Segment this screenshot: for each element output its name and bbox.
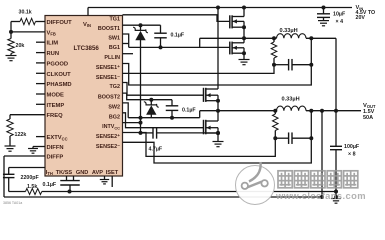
wire VIN pin up to rail <box>87 8 89 16</box>
resistor R sense1 DCR <box>273 38 275 42</box>
wire Q2 drain to SW1 <box>243 38 245 43</box>
svg-text:DIFFOUT: DIFFOUT <box>47 20 73 26</box>
node INTVCC bus 4.7uF tap <box>139 131 143 135</box>
node SW2 <box>216 109 220 113</box>
wire 2200pF to gnd rail <box>8 178 10 192</box>
svg-text:DIFFP: DIFFP <box>47 155 64 161</box>
wire SENSE2+ staircase <box>123 133 276 157</box>
wire VOUT bus vertical <box>335 38 337 146</box>
wire VFB node to VFB pin <box>11 31 45 33</box>
node L1 output sense tap <box>309 36 313 40</box>
wire BG1 stub tee <box>123 43 129 45</box>
capacitor C sense2 DCR <box>275 137 288 139</box>
svg-text:× 4: × 4 <box>336 19 344 25</box>
node boost1 cap bottom <box>159 45 163 49</box>
svg-text:AVP: AVP <box>92 170 103 176</box>
resistor R 122k freq set <box>7 119 13 136</box>
svg-text:BG1: BG1 <box>109 45 120 51</box>
wire sense2 cap to L2 out <box>310 111 312 139</box>
wire SENSE1+ stub jog <box>123 64 312 86</box>
resistor R 1.5k comp <box>26 189 42 195</box>
svg-text:TG1: TG1 <box>110 16 120 22</box>
svg-text:ILIM: ILIM <box>47 41 59 47</box>
resistor R 20k feedback bottom <box>8 39 14 54</box>
wire TKSS stub down <box>66 176 68 181</box>
node sense2 cap right <box>309 136 313 140</box>
wire L1 to VOUT corner <box>306 37 336 39</box>
node VIN rail input cap <box>322 6 326 10</box>
wire SW1 to inductor <box>244 37 277 39</box>
svg-text:50A: 50A <box>363 115 373 121</box>
wire EXTVCC stub <box>36 136 45 138</box>
svg-text:LTC3856: LTC3856 <box>74 45 100 52</box>
svg-text:PGOOD: PGOOD <box>47 61 69 67</box>
resistor R 30.1k feedback top <box>20 18 36 24</box>
node VFB junction <box>9 30 13 34</box>
transistor Q1 top NMOS phase1 <box>229 15 231 28</box>
wire Q1 drain to VIN rail <box>243 8 245 17</box>
wire Q4 source to ground <box>217 133 219 141</box>
ground GND pin <box>100 179 109 181</box>
svg-text:20k: 20k <box>16 43 25 49</box>
wire PGOOD stub <box>36 62 45 64</box>
capacitor C 2200pF comp <box>3 173 15 175</box>
ground below 122k <box>9 136 11 146</box>
node VIN rail phase2 feed <box>216 6 220 10</box>
node VIN rail Q1 drain <box>242 6 246 10</box>
node SW1 sense resistor tap <box>272 36 276 40</box>
svg-text:4.7µF: 4.7µF <box>149 147 163 153</box>
diode D2 boost schottky <box>150 100 152 105</box>
wire RUN stub <box>36 52 45 54</box>
svg-text:1.5k: 1.5k <box>27 184 37 190</box>
capacitor C 10uF input <box>323 8 325 14</box>
svg-text:ISET: ISET <box>106 170 119 176</box>
wire 30.1k left to VFB node <box>11 21 20 23</box>
node DIFFP rail join <box>320 195 324 199</box>
node sense1 cap right <box>309 63 313 67</box>
wire DIFFN to ground <box>33 146 45 148</box>
wire SENSE1- run <box>123 65 275 74</box>
node VOUT bus junction <box>334 109 338 113</box>
wire CLKOUT stub <box>36 72 45 74</box>
svg-text:0.1µF: 0.1µF <box>43 182 57 188</box>
diode D1 boost schottky <box>140 25 142 30</box>
node SW2 sense resistor tap <box>273 109 277 113</box>
svg-text:FREQ: FREQ <box>47 113 64 119</box>
wire L2 to VOUT <box>306 110 361 112</box>
svg-text:VFB: VFB <box>47 30 56 36</box>
svg-text:CLKOUT: CLKOUT <box>47 72 72 78</box>
wire sense1 cap to L1 out <box>310 38 312 64</box>
node sense1 RC junction <box>272 63 276 67</box>
wire BG2 to bottom gate <box>123 113 204 128</box>
transistor Q4 bottom NMOS phase2 <box>203 120 205 135</box>
wire SW1 riser <box>199 38 201 47</box>
wire SW1 lower run to bottom gate <box>129 46 230 48</box>
wire TG1 to top gate <box>123 15 230 22</box>
svg-text:SENSE2⁻: SENSE2⁻ <box>96 144 120 150</box>
svg-text:ITH: ITH <box>46 170 53 176</box>
wire SW2 node line <box>200 110 218 112</box>
wire INTVCC pin to bus <box>123 122 141 124</box>
svg-text:RUN: RUN <box>47 51 60 57</box>
ground DIFFN <box>28 148 38 150</box>
wire Q3 drain lead <box>217 8 219 90</box>
svg-text:2200pF: 2200pF <box>21 175 40 181</box>
node SW1 <box>242 36 246 40</box>
svg-text:PLLIN: PLLIN <box>104 55 120 61</box>
svg-text:TK/SS: TK/SS <box>56 170 73 176</box>
transistor Q2 bottom NMOS phase1 <box>229 42 231 55</box>
node 0.1uF rail junction <box>68 190 72 194</box>
svg-text:122k: 122k <box>15 132 27 138</box>
node L2 output sense tap <box>309 109 313 113</box>
svg-text:MODE: MODE <box>47 93 65 99</box>
IC U1 LTC3856 controller body <box>45 16 123 177</box>
wire FREQ to 122k <box>10 114 45 116</box>
wire SW1 jog down <box>123 34 129 47</box>
inductor L2 0.33uH <box>277 106 307 111</box>
wire SENSE2- staircase <box>123 138 312 163</box>
node 4.7uF gnd tie <box>216 131 220 135</box>
svg-text:PHASMD: PHASMD <box>47 82 72 88</box>
wire DIFFP tap riser <box>321 111 323 197</box>
svg-text:INTVCC: INTVCC <box>102 124 120 130</box>
inductor L1 0.33uH <box>277 34 307 39</box>
wire MODE stub <box>36 93 45 95</box>
resistor R sense2 DCR <box>274 111 276 114</box>
wire 0.1uF to rail <box>69 185 71 192</box>
node boost2 cap bottom <box>170 116 174 120</box>
wire ITH pin left <box>9 167 45 169</box>
wire gnd-sense rail left segment <box>9 191 26 193</box>
wire GND pin stub <box>104 176 106 180</box>
wire BOOST2 line <box>123 93 173 100</box>
wire VOUT-sense rail <box>4 196 322 198</box>
capacitor C sense1 DCR <box>274 64 289 66</box>
svg-text:0.1µF: 0.1µF <box>182 108 196 114</box>
wire SW2 jog down <box>123 103 129 118</box>
wire ITEMP stub <box>36 103 45 105</box>
ground Q4 source <box>213 141 224 143</box>
svg-text:DIFFN: DIFFN <box>47 145 64 151</box>
svg-text:BOOST2: BOOST2 <box>98 95 120 101</box>
svg-text:VIN: VIN <box>83 22 91 28</box>
wire TG2 to gate <box>123 83 204 96</box>
wire 100uF to gnd rails <box>335 150 337 199</box>
svg-text:× 8: × 8 <box>348 152 356 158</box>
ground below 20k <box>10 54 12 56</box>
wire Q3 source to SW2 <box>217 101 219 111</box>
svg-text:SW2: SW2 <box>108 104 120 110</box>
svg-text:SW1: SW1 <box>108 36 120 42</box>
svg-text:0.1µF: 0.1µF <box>171 33 185 39</box>
node gnd rail VOUT cap <box>334 190 338 194</box>
node sense2 RC junction <box>273 136 277 140</box>
wire DIFFP remote sense left <box>4 155 45 157</box>
wire gnd-sense rail <box>42 191 336 193</box>
svg-text:GND: GND <box>76 170 88 176</box>
wire Q4 drain to SW2 <box>217 111 219 121</box>
wire INTVCC bus vertical <box>140 41 142 133</box>
node VOUT diffp tap <box>320 109 324 113</box>
svg-text:SENSE1⁺: SENSE1⁺ <box>96 65 120 71</box>
ground output <box>331 198 341 200</box>
capacitor C 0.1uF soft-start <box>60 180 80 182</box>
capacitor C 0.1uF boost2 <box>171 100 173 106</box>
wire SW1 node line <box>200 37 244 39</box>
capacitor C 0.1uF boost1 <box>160 25 162 33</box>
ground Q2 source <box>239 59 250 61</box>
wire ILIM stub <box>36 41 45 43</box>
ground input cap <box>318 20 329 22</box>
wire BOOST1 line <box>123 24 161 26</box>
wire SW2 lower run <box>128 117 200 119</box>
svg-text:0.33µH: 0.33µH <box>282 96 300 102</box>
svg-text:EXTVCC: EXTVCC <box>47 135 68 141</box>
capacitor C 4.7uF INTVCC <box>141 132 154 134</box>
svg-text:SENSE2⁺: SENSE2⁺ <box>96 134 120 140</box>
svg-text:30.1k: 30.1k <box>19 10 32 16</box>
svg-text:10µF: 10µF <box>333 11 346 17</box>
svg-text:BG2: BG2 <box>109 114 120 120</box>
capacitor C 100uF output <box>330 145 342 147</box>
wire SW2 riser <box>199 111 201 118</box>
svg-text:www.elecfans.com: www.elecfans.com <box>275 190 366 201</box>
svg-text:BOOST1: BOOST1 <box>98 26 120 32</box>
wire PLLIN stub <box>123 53 134 55</box>
node BOOST2 diode junction <box>149 98 153 102</box>
transistor Q3 top NMOS phase2 <box>203 88 205 102</box>
svg-text:0.33µH: 0.33µH <box>280 28 298 34</box>
wire top VIN rail <box>88 7 352 9</box>
wire SW2 to inductor <box>218 110 277 112</box>
svg-text:3856 TA01a: 3856 TA01a <box>3 201 22 205</box>
wire PHASMD stub <box>36 83 45 85</box>
svg-text:SENSE1⁻: SENSE1⁻ <box>96 75 120 81</box>
wire Q1 source to SW1 <box>243 27 245 38</box>
svg-text:100µF: 100µF <box>344 144 360 150</box>
svg-text:TG2: TG2 <box>110 84 120 90</box>
svg-text:ITEMP: ITEMP <box>47 103 65 109</box>
wire Q2 source to ground <box>243 53 245 59</box>
svg-text:20V: 20V <box>356 15 366 21</box>
wire 30.1k to DIFFOUT <box>36 21 46 23</box>
watermark elecfans logo and text <box>236 166 275 205</box>
wire ISET stub down <box>111 176 113 187</box>
node BOOST1 diode junction <box>139 23 143 27</box>
node INTVCC bus anode <box>139 116 143 120</box>
